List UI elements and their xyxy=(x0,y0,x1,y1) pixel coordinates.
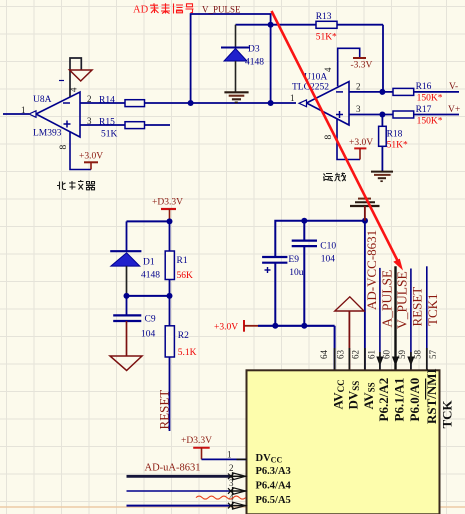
svg-text:61: 61 xyxy=(367,350,377,359)
svg-text:A_PULSE: A_PULSE xyxy=(380,270,395,328)
svg-text:57: 57 xyxy=(428,350,438,360)
svg-text:10u: 10u xyxy=(289,268,304,278)
svg-text:104: 104 xyxy=(141,330,156,340)
svg-text:R16: R16 xyxy=(416,82,432,92)
svg-text:V_PULSE: V_PULSE xyxy=(395,271,410,329)
svg-text:P6.4/A4: P6.4/A4 xyxy=(256,481,292,492)
svg-text:C9: C9 xyxy=(145,315,156,325)
svg-text:3: 3 xyxy=(87,116,92,126)
svg-text:62: 62 xyxy=(351,350,361,359)
svg-text:P6.0/A0: P6.0/A0 xyxy=(407,378,422,422)
svg-text:56K: 56K xyxy=(177,271,194,281)
svg-text:2: 2 xyxy=(356,82,361,92)
svg-text:1: 1 xyxy=(21,105,26,115)
svg-text:TCK: TCK xyxy=(439,399,454,428)
svg-text:5.1K: 5.1K xyxy=(178,348,197,358)
svg-text:P6.5/A5: P6.5/A5 xyxy=(256,495,291,506)
svg-text:60: 60 xyxy=(382,350,392,360)
svg-text:RESET: RESET xyxy=(410,287,425,327)
svg-text:DVCC: DVCC xyxy=(256,453,283,465)
svg-text:104: 104 xyxy=(321,255,336,265)
svg-text:C10: C10 xyxy=(320,242,336,252)
svg-text:8: 8 xyxy=(59,145,69,150)
svg-text:58: 58 xyxy=(413,350,423,360)
svg-text:51K*: 51K* xyxy=(387,141,408,151)
svg-text:R15: R15 xyxy=(99,118,115,128)
svg-text:3: 3 xyxy=(356,104,361,114)
svg-text:1: 1 xyxy=(290,93,295,103)
svg-text:+D3.3V: +D3.3V xyxy=(152,198,183,208)
svg-text:4148: 4148 xyxy=(141,271,160,281)
svg-text:R1: R1 xyxy=(177,256,188,266)
svg-text:63: 63 xyxy=(336,350,346,360)
svg-text:E9: E9 xyxy=(288,255,299,265)
svg-text:AD-uA-8631: AD-uA-8631 xyxy=(145,463,201,474)
svg-text:R14: R14 xyxy=(99,96,115,106)
svg-text:2: 2 xyxy=(87,94,92,104)
svg-text:RST/NMI: RST/NMI xyxy=(424,368,439,424)
svg-text:8: 8 xyxy=(324,135,334,140)
svg-text:51K*: 51K* xyxy=(316,33,337,43)
svg-text:D3: D3 xyxy=(248,45,260,55)
svg-text:59: 59 xyxy=(397,350,407,360)
svg-text:1: 1 xyxy=(227,450,232,460)
svg-text:51K: 51K xyxy=(101,130,118,140)
svg-text:3: 3 xyxy=(229,478,234,488)
svg-text:P6.2/A2: P6.2/A2 xyxy=(376,378,391,422)
svg-text:+3.0V: +3.0V xyxy=(349,138,373,148)
svg-text:V-: V- xyxy=(449,82,458,92)
svg-text:V+: V+ xyxy=(448,105,460,115)
svg-text:V_PULSE: V_PULSE xyxy=(202,5,241,15)
svg-text:150K*: 150K* xyxy=(417,117,443,127)
svg-text:U8A: U8A xyxy=(33,95,52,105)
svg-text:TCK1: TCK1 xyxy=(425,294,440,327)
svg-text:D1: D1 xyxy=(143,258,155,268)
svg-text:+3.0V: +3.0V xyxy=(79,152,103,162)
svg-text:RESET: RESET xyxy=(157,390,172,430)
svg-text:P6.3/A3: P6.3/A3 xyxy=(256,466,291,477)
svg-text:R13: R13 xyxy=(316,12,332,22)
svg-text:4148: 4148 xyxy=(245,58,264,68)
svg-text:4: 4 xyxy=(323,67,333,72)
svg-text:+3.0V: +3.0V xyxy=(214,323,238,333)
svg-text:4: 4 xyxy=(69,87,79,92)
svg-text:AD: AD xyxy=(133,5,149,16)
svg-text:64: 64 xyxy=(319,350,329,360)
svg-text:-3.3V: -3.3V xyxy=(351,61,373,71)
svg-text:R17: R17 xyxy=(416,105,432,115)
svg-text:+D3.3V: +D3.3V xyxy=(181,436,212,446)
svg-text:R2: R2 xyxy=(178,331,189,341)
svg-text:LM393: LM393 xyxy=(33,129,62,139)
svg-text:2: 2 xyxy=(229,463,234,473)
svg-text:150K*: 150K* xyxy=(417,94,443,104)
svg-text:AD-VCC-8631: AD-VCC-8631 xyxy=(364,230,379,310)
svg-text:P6.1/A1: P6.1/A1 xyxy=(391,378,406,422)
svg-text:R18: R18 xyxy=(387,130,403,140)
